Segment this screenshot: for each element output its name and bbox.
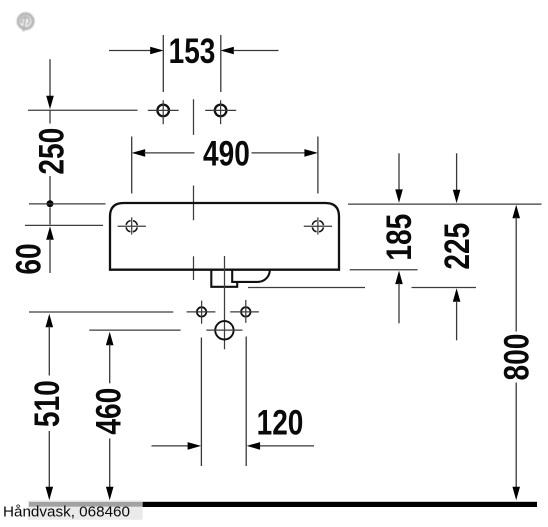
mounting hole left crosshair — [118, 217, 146, 234]
faucet hole left crosshair — [148, 100, 179, 124]
fixing hole left circle — [197, 307, 206, 316]
caption background — [28, 500, 143, 519]
faucet level extension line left — [28, 109, 138, 111]
dim 510 down arrowhead — [46, 487, 54, 501]
dim 120 extension line left — [200, 338, 202, 467]
drain center line — [224, 256, 226, 349]
faucet hole right circle — [215, 105, 227, 117]
dim 60 up arrowhead — [46, 226, 54, 240]
mounting hole right circle — [312, 221, 323, 232]
dim 153 left arrowhead — [150, 47, 163, 55]
dim 460 upper shaft — [109, 344, 111, 383]
dim 490 dimension line right — [252, 152, 306, 154]
dim 250 end dot — [47, 200, 54, 207]
dim 60 lower extension line — [25, 224, 103, 226]
drain hole circle — [215, 321, 233, 339]
faucet hole right crosshair — [205, 100, 236, 124]
dim 510 extension line — [29, 311, 173, 313]
dim 510 up arrowhead — [46, 314, 54, 328]
svg-text:460: 460 — [88, 388, 128, 435]
dim 153 extension line left — [162, 35, 164, 92]
dim 800 up arrowhead — [512, 205, 520, 219]
dim 60 arrow shaft — [49, 239, 51, 274]
dim 120 left shaft — [152, 445, 189, 447]
dim 225 top arrow shaft — [456, 153, 458, 190]
dim 185 up arrowhead — [395, 271, 403, 285]
fixing hole right circle — [241, 307, 250, 316]
dim 120 right shaft — [260, 445, 315, 447]
svg-text:225: 225 — [437, 223, 477, 270]
dim 490 right arrowhead — [304, 149, 318, 157]
siphon cover outline — [232, 270, 270, 282]
dim 510 lower shaft — [48, 431, 50, 489]
dim 153 dimension line right shaft — [234, 50, 279, 52]
dim 153 right arrowhead — [220, 47, 233, 55]
dim 225 bottom arrow shaft — [456, 301, 458, 341]
dim 153 extension line right — [220, 35, 222, 92]
svg-text:800: 800 — [496, 334, 536, 381]
dim 460 extension line — [89, 329, 180, 331]
pinterest icon — [18, 14, 33, 31]
svg-text:153: 153 — [169, 31, 216, 71]
dim 460 lower shaft — [109, 439, 111, 489]
dim 250 down arrowhead — [46, 96, 54, 110]
dim 510 upper shaft — [48, 326, 50, 376]
basin top extension line right — [348, 203, 542, 205]
dim 153 dimension line left shaft — [109, 50, 151, 52]
mounting hole right crosshair — [304, 217, 332, 234]
fixing hole right crosshair — [230, 300, 259, 323]
dim 490 dimension line left — [144, 152, 195, 154]
dim 800 lower shaft — [515, 383, 517, 490]
fixing hole left crosshair — [187, 301, 216, 324]
dim 250 top arrow shaft — [49, 59, 51, 96]
dim 120 extension line right — [245, 337, 247, 467]
dim 490 left arrowhead — [132, 149, 146, 157]
drain hole crosshair — [206, 329, 242, 331]
svg-text:250: 250 — [31, 128, 71, 175]
basin top extension line left — [29, 203, 106, 205]
dim 800 down arrowhead — [512, 487, 520, 501]
dim 185 down arrowhead — [395, 189, 403, 203]
basin center line — [193, 99, 195, 280]
dim 800 upper shaft — [515, 217, 517, 332]
svg-text:60: 60 — [9, 243, 49, 274]
dim 120 left arrowhead — [188, 442, 202, 450]
svg-text:490: 490 — [203, 134, 250, 174]
basin outline — [110, 203, 339, 270]
dim 120 right arrowhead — [247, 442, 261, 450]
floor line seen through caption — [29, 502, 143, 507]
siphon bottom extension line — [248, 287, 476, 289]
dim 60 line segment — [49, 208, 51, 225]
mounting hole left circle — [126, 221, 137, 232]
dim 225 down arrowhead — [453, 190, 461, 204]
dim 225 up arrowhead — [453, 288, 461, 302]
dim 490 extension line left — [131, 137, 133, 194]
svg-text:510: 510 — [27, 380, 67, 427]
svg-text:120: 120 — [257, 402, 304, 442]
dim 460 down arrowhead — [106, 487, 114, 501]
dim 185 bottom arrow shaft — [398, 283, 400, 323]
floor line — [29, 502, 537, 507]
faucet hole left circle — [157, 105, 169, 117]
dim 185 top arrow shaft — [398, 153, 400, 190]
svg-text:185: 185 — [379, 214, 419, 261]
dim 250 line upper segment — [49, 110, 51, 123]
dim 250 line lower segment — [49, 176, 51, 201]
dim 460 up arrowhead — [106, 332, 114, 346]
drain flange rectangle — [211, 270, 237, 287]
basin bottom extension line right — [350, 269, 418, 271]
dim 490 extension line right — [317, 137, 319, 194]
svg-text:Håndvask, 068460: Håndvask, 068460 — [3, 505, 130, 521]
